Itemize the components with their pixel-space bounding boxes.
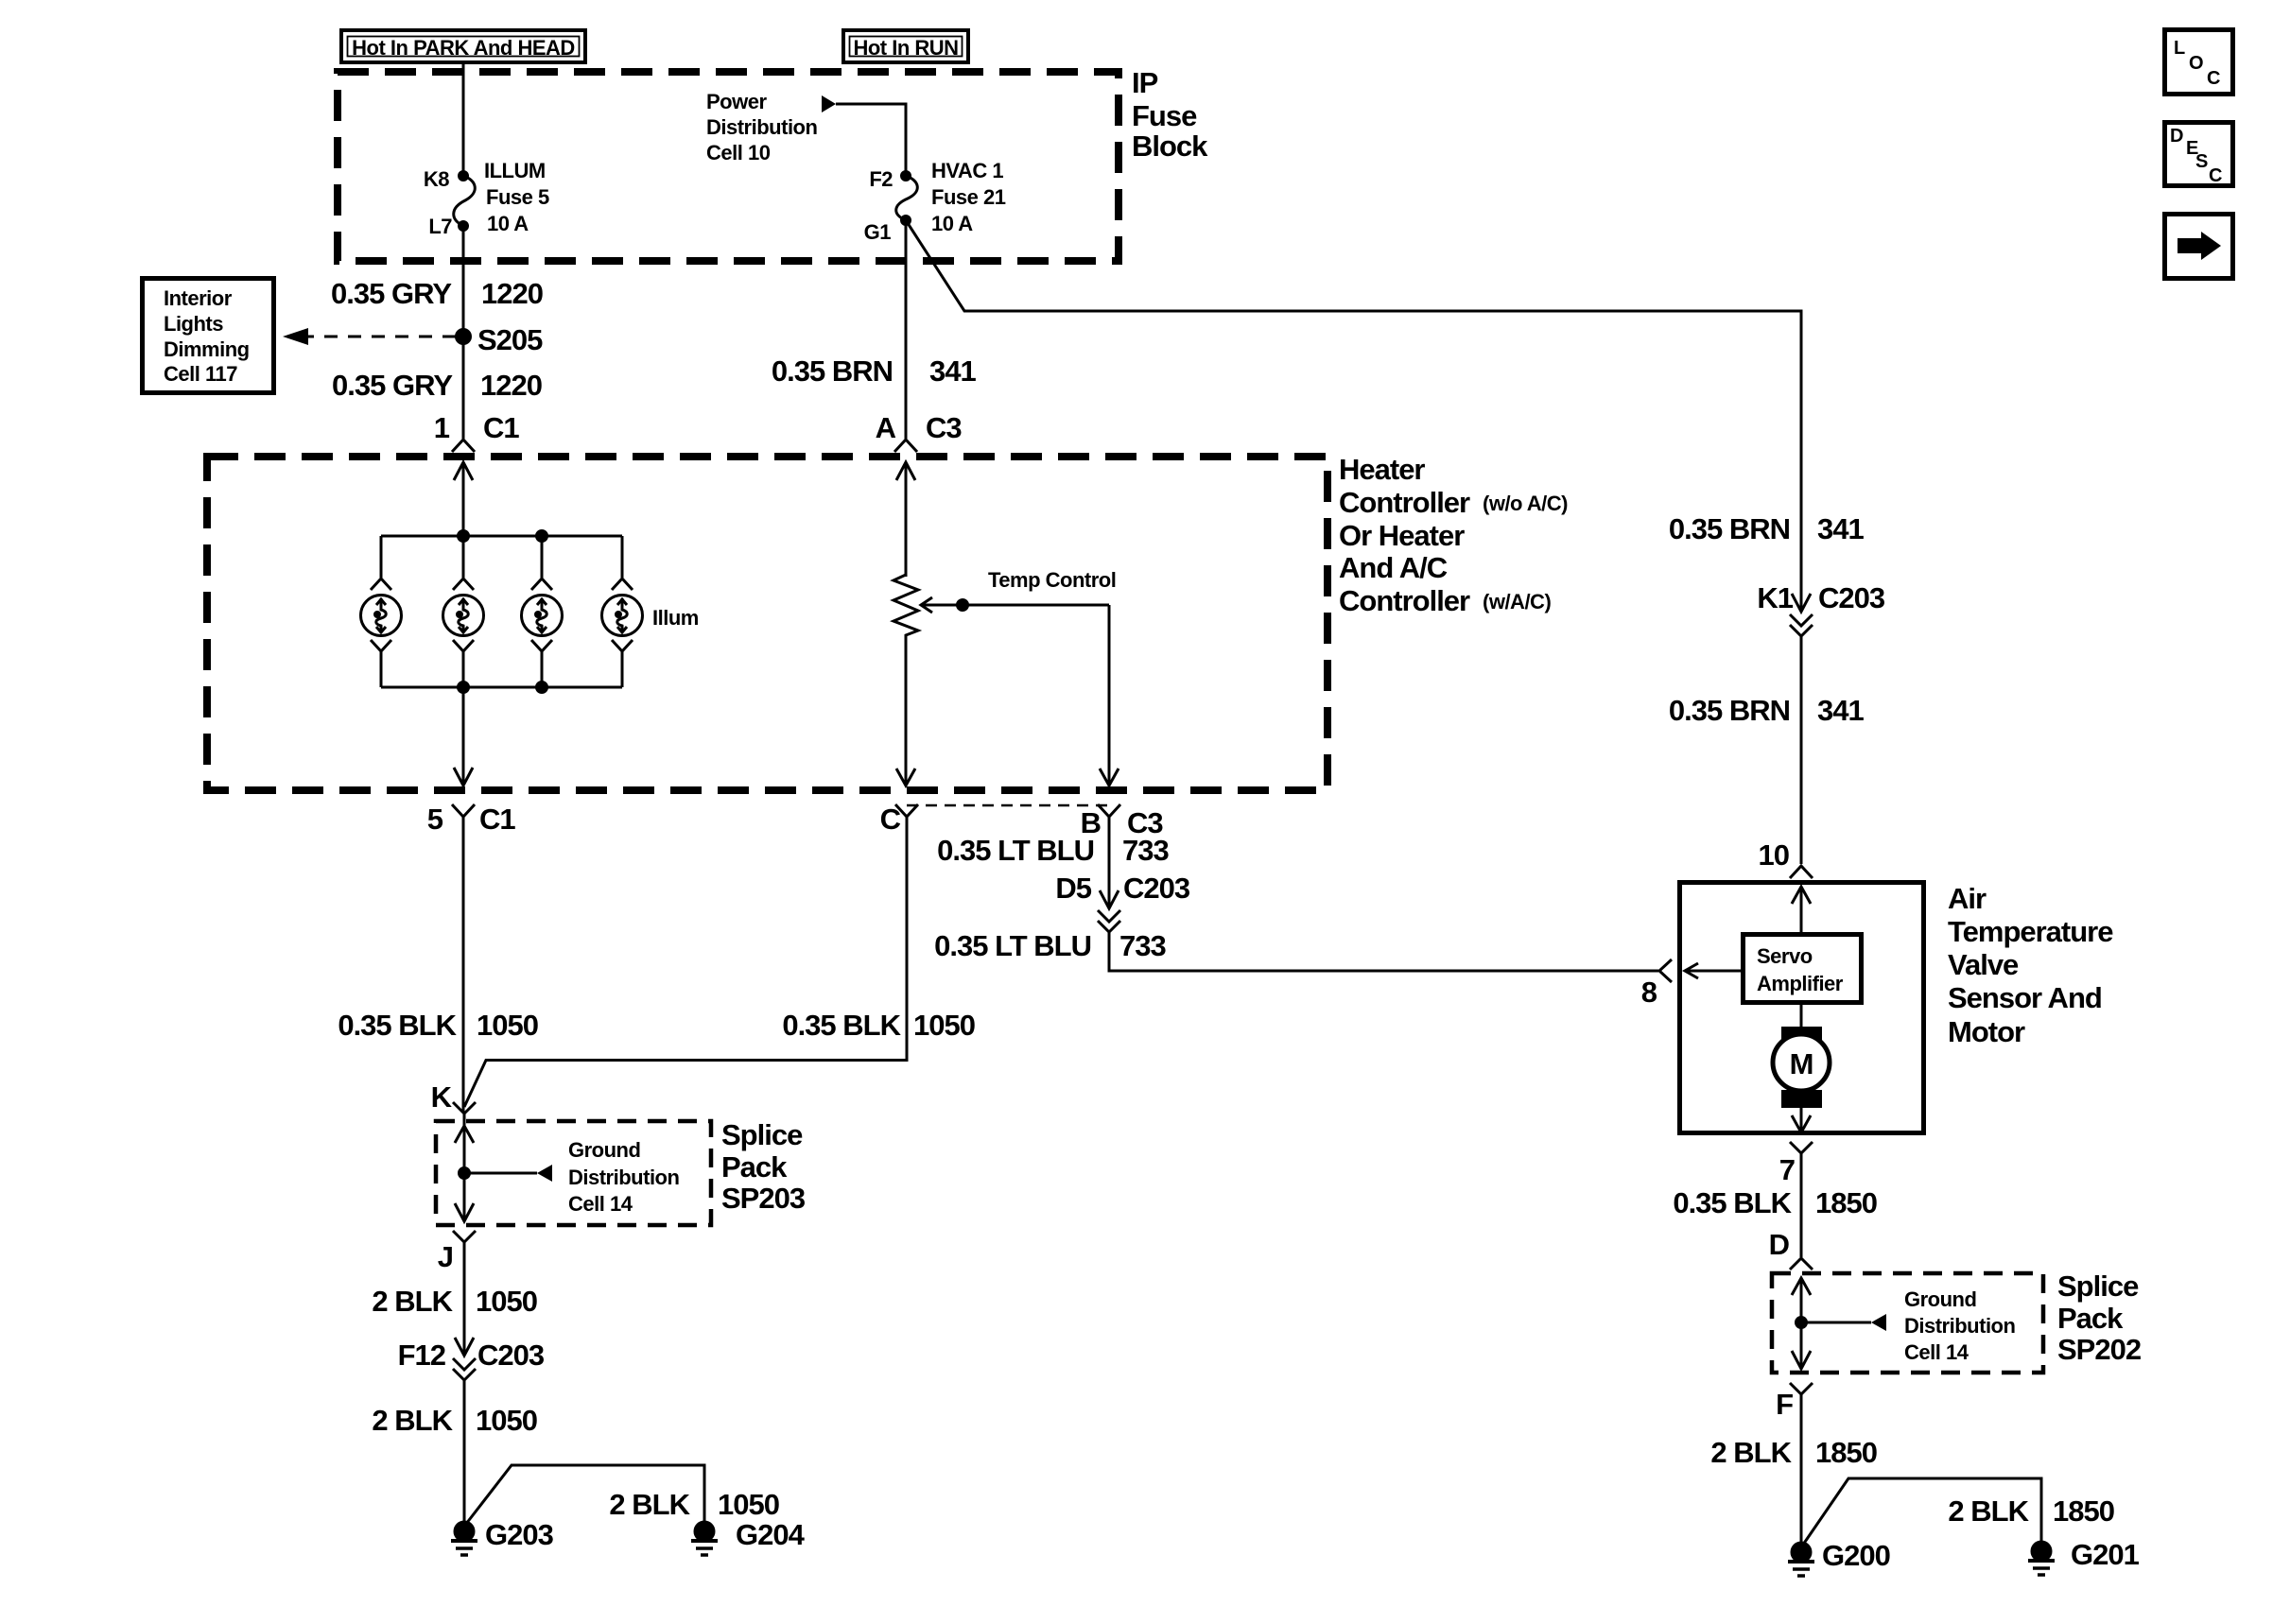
svg-text:Lights: Lights xyxy=(164,312,223,336)
fuse HVAC 1 value labels xyxy=(931,159,1006,235)
connector chevron J xyxy=(453,1231,476,1242)
svg-text:Splice: Splice xyxy=(721,1118,803,1151)
wire 2 BLK 1050 branch to ground G204 xyxy=(466,1465,704,1524)
svg-text:733: 733 xyxy=(1122,834,1169,867)
svg-text:0.35 LT BLU: 0.35 LT BLU xyxy=(934,929,1091,962)
svg-text:Pack: Pack xyxy=(721,1150,788,1183)
svg-text:Servo: Servo xyxy=(1757,944,1813,968)
svg-text:Sensor And: Sensor And xyxy=(1948,981,2102,1014)
legend box LOC xyxy=(2165,30,2233,95)
wire BRN 341 from fuse to connector C3 xyxy=(905,220,908,439)
wire LT BLU 733 from pin B to connector C203 xyxy=(1100,817,1119,908)
svg-text:Cell 14: Cell 14 xyxy=(1904,1340,1969,1364)
svg-text:Fuse 21: Fuse 21 xyxy=(931,185,1006,209)
connector chevron 1 C1 xyxy=(452,440,475,452)
wire label 0.35 LT BLU 733 upper xyxy=(937,834,1169,867)
pin D5 C203 labels xyxy=(1055,872,1190,905)
connector C3 thin dashed edge between C and B xyxy=(907,804,1109,807)
splice SP203 internal arrows xyxy=(455,1126,552,1221)
lamp bus bottom xyxy=(381,686,622,689)
svg-text:G200: G200 xyxy=(1822,1539,1890,1572)
svg-text:2 BLK: 2 BLK xyxy=(372,1285,453,1318)
wire label 0.35 BRN 341 right upper xyxy=(1669,512,1865,545)
connector chevron K xyxy=(453,1102,476,1114)
svg-text:M: M xyxy=(1790,1047,1813,1080)
svg-text:SP202: SP202 xyxy=(2057,1333,2141,1366)
inline connector F12 C203 double chevron xyxy=(453,1358,476,1380)
svg-text:J: J xyxy=(438,1240,453,1273)
Splice Pack SP203 label xyxy=(721,1118,806,1215)
svg-text:C1: C1 xyxy=(479,803,515,836)
svg-text:F2: F2 xyxy=(869,167,893,191)
svg-text:1050: 1050 xyxy=(476,1404,537,1437)
junction dot xyxy=(459,531,469,542)
ground G203 xyxy=(451,1522,477,1555)
svg-text:Splice: Splice xyxy=(2057,1270,2139,1303)
svg-text:733: 733 xyxy=(1119,929,1166,962)
svg-text:Interior: Interior xyxy=(164,286,233,310)
wire from servo amplifier to motor xyxy=(1800,1005,1803,1030)
svg-text:C1: C1 xyxy=(483,411,519,444)
pin A C3 labels xyxy=(876,411,963,444)
connector chevron pin 7 xyxy=(1790,1142,1813,1153)
svg-text:10: 10 xyxy=(1759,838,1789,872)
wire label 2 BLK 1050 branch xyxy=(609,1488,779,1521)
svg-text:1050: 1050 xyxy=(477,1009,538,1042)
fuse ILLUM value labels xyxy=(484,159,549,235)
heater controller name label xyxy=(1339,453,1568,617)
svg-text:Distribution: Distribution xyxy=(1904,1314,2015,1338)
legend box arrow xyxy=(2165,215,2233,279)
Power Distribution Cell 10 reference label xyxy=(706,90,817,164)
svg-text:D: D xyxy=(2170,126,2183,147)
pin F12 C203 labels xyxy=(398,1339,545,1372)
svg-text:IP: IP xyxy=(1132,66,1158,99)
svg-text:1220: 1220 xyxy=(480,369,542,402)
pin B C3 labels xyxy=(1081,806,1164,839)
svg-text:And A/C: And A/C xyxy=(1339,551,1448,584)
svg-text:10 A: 10 A xyxy=(931,212,973,235)
Interior Lights Dimming Cell 117 reference box xyxy=(143,279,274,393)
motor M xyxy=(1773,1027,1830,1108)
svg-text:C: C xyxy=(2207,68,2220,89)
wire label 0.35 GRY 1220 lower xyxy=(332,369,542,402)
IP fuse block label xyxy=(1132,66,1208,163)
connector chevron pin 10 xyxy=(1790,866,1813,878)
svg-text:Air: Air xyxy=(1948,882,1987,915)
pin 5 C1 labels xyxy=(427,803,516,836)
svg-text:Amplifier: Amplifier xyxy=(1757,972,1844,995)
svg-text:K8: K8 xyxy=(424,167,449,191)
svg-text:0.35 BLK: 0.35 BLK xyxy=(1673,1186,1792,1219)
svg-text:Controller: Controller xyxy=(1339,486,1470,519)
power source label box Hot In RUN xyxy=(843,30,968,62)
svg-text:SP203: SP203 xyxy=(721,1182,806,1215)
svg-text:Motor: Motor xyxy=(1948,1015,2025,1048)
svg-text:C: C xyxy=(2209,165,2222,186)
svg-text:C203: C203 xyxy=(477,1339,545,1372)
inline connector D5 C203 double chevron xyxy=(1098,910,1120,932)
junction dot xyxy=(459,682,469,693)
lamp bus top xyxy=(381,535,622,538)
svg-text:1850: 1850 xyxy=(2053,1494,2114,1528)
svg-text:Or Heater: Or Heater xyxy=(1339,519,1465,552)
svg-text:Block: Block xyxy=(1132,130,1208,163)
Ground Distribution Cell 14 label SP203 xyxy=(568,1138,679,1216)
svg-text:D: D xyxy=(1769,1228,1790,1261)
wire from potentiometer to pin C with exit arrow xyxy=(896,637,915,786)
wire BLK 1050 from pin 5 down to splice pack xyxy=(462,817,465,1113)
splice pack SP203 dashed box xyxy=(436,1121,711,1225)
svg-text:C: C xyxy=(880,803,901,836)
arrowhead from Power Distribution feed xyxy=(822,95,836,112)
arrowhead to Interior Lights Dimming xyxy=(283,328,308,345)
wire arrow into box at pin 10 xyxy=(1792,887,1811,932)
lamp branch 3 xyxy=(522,536,563,687)
svg-text:L: L xyxy=(2174,38,2185,59)
wire from connector C203 to air temperature valve pin 8 xyxy=(1109,932,1658,971)
connector chevron pin 8 xyxy=(1659,959,1672,982)
wire from lamps to pin 5 with exit arrow xyxy=(454,687,473,786)
wire 2 BLK 1050 from J to connector C203 xyxy=(455,1242,474,1356)
wire 0.35 BLK 1850 from pin 7 to splice pack xyxy=(1800,1153,1803,1257)
svg-text:0.35 GRY: 0.35 GRY xyxy=(332,369,453,402)
svg-text:1220: 1220 xyxy=(481,277,543,310)
svg-text:A: A xyxy=(876,411,896,444)
wire label 0.35 BLK 1050 middle xyxy=(782,1009,975,1042)
wire 2 BLK 1850 from F to ground G200 xyxy=(1800,1394,1803,1544)
svg-text:Hot In RUN: Hot In RUN xyxy=(853,36,958,60)
svg-text:Temp Control: Temp Control xyxy=(988,568,1116,592)
connector chevron pin B C3 xyxy=(1098,804,1120,817)
svg-text:1050: 1050 xyxy=(913,1009,975,1042)
wire 0.35 BRN 341 from C203 to air temperature valve xyxy=(1800,636,1803,864)
svg-text:O: O xyxy=(2189,53,2203,74)
svg-text:S: S xyxy=(2195,151,2208,172)
svg-text:Heater: Heater xyxy=(1339,453,1425,486)
svg-text:5: 5 xyxy=(427,803,443,836)
svg-text:S205: S205 xyxy=(477,323,543,356)
wire label 0.35 BRN 341 right lower xyxy=(1669,694,1865,727)
ground G204 xyxy=(691,1522,718,1555)
Ground Distribution Cell 14 label SP202 xyxy=(1904,1287,2015,1364)
svg-text:C203: C203 xyxy=(1123,872,1190,905)
wire label 2 BLK 1850 left xyxy=(1710,1436,1877,1469)
wire from Power Distribution to fuse HVAC 1 xyxy=(836,104,906,176)
svg-text:Dimming: Dimming xyxy=(164,337,250,361)
splice pack SP202 dashed box xyxy=(1772,1273,2043,1373)
pin 1 C1 labels xyxy=(434,411,520,444)
svg-text:G204: G204 xyxy=(736,1518,806,1551)
air temperature valve name label xyxy=(1948,882,2113,1048)
wire from Hot In PARK And HEAD to fuse ILLUM xyxy=(462,62,465,176)
wire arrow into heater controller at pin A xyxy=(896,462,915,577)
wire label 0.35 BLK 1050 left xyxy=(338,1009,538,1042)
connector chevron pin 5 C1 xyxy=(452,804,475,817)
svg-text:K: K xyxy=(431,1080,453,1114)
svg-text:C203: C203 xyxy=(1818,581,1885,614)
svg-text:341: 341 xyxy=(929,354,976,388)
svg-text:Hot In PARK And HEAD: Hot In PARK And HEAD xyxy=(352,36,575,60)
svg-text:Controller: Controller xyxy=(1339,584,1470,617)
connector chevron A C3 xyxy=(894,440,917,452)
wire label 2 BLK 1050 lower xyxy=(372,1404,537,1437)
wire arrow into heater controller at pin 1 xyxy=(454,462,473,536)
svg-text:8: 8 xyxy=(1641,976,1657,1009)
wire label 2 BLK 1850 branch xyxy=(1948,1494,2114,1528)
svg-text:HVAC 1: HVAC 1 xyxy=(931,159,1003,182)
svg-text:0.35 BLK: 0.35 BLK xyxy=(338,1009,457,1042)
svg-text:0.35 BLK: 0.35 BLK xyxy=(782,1009,901,1042)
arrow from servo amplifier to pin 8 xyxy=(1685,963,1741,978)
svg-text:F: F xyxy=(1776,1388,1793,1421)
connector chevron F xyxy=(1790,1383,1813,1394)
junction dot xyxy=(537,531,547,542)
junction dot xyxy=(537,682,547,693)
svg-text:ILLUM: ILLUM xyxy=(484,159,546,182)
wire 2 BLK 1850 branch to ground G201 xyxy=(1803,1478,2041,1545)
svg-text:1850: 1850 xyxy=(1815,1186,1877,1219)
potentiometer wiper arrow xyxy=(921,597,1119,786)
svg-text:G1: G1 xyxy=(864,220,892,244)
svg-text:0.35 BRN: 0.35 BRN xyxy=(1669,512,1790,545)
svg-text:0.35 LT BLU: 0.35 LT BLU xyxy=(937,834,1094,867)
svg-text:Cell 14: Cell 14 xyxy=(568,1192,633,1216)
legend box DESC xyxy=(2165,123,2233,187)
wire label 2 BLK 1050 upper xyxy=(372,1285,537,1318)
svg-text:Cell 117: Cell 117 xyxy=(164,362,237,386)
svg-text:(w/A/C): (w/A/C) xyxy=(1483,590,1551,613)
lamp branch 2 xyxy=(443,536,484,687)
svg-text:Distribution: Distribution xyxy=(568,1166,679,1189)
svg-text:Illum: Illum xyxy=(652,606,699,630)
svg-text:2 BLK: 2 BLK xyxy=(372,1404,453,1437)
servo amplifier box xyxy=(1744,935,1862,1003)
svg-text:C3: C3 xyxy=(926,411,962,444)
svg-text:2 BLK: 2 BLK xyxy=(1710,1436,1792,1469)
lamp branch 4 Illum xyxy=(602,536,643,687)
pin K1 C203 labels xyxy=(1757,581,1885,614)
connector chevron pin C xyxy=(895,804,918,817)
wire label 0.35 GRY 1220 upper xyxy=(331,277,543,310)
svg-text:L7: L7 xyxy=(428,215,452,238)
svg-text:7: 7 xyxy=(1779,1153,1795,1186)
potentiometer Temp Control xyxy=(894,575,918,637)
svg-text:Pack: Pack xyxy=(2057,1302,2124,1335)
svg-text:0.35 GRY: 0.35 GRY xyxy=(331,277,452,310)
wire label 0.35 LT BLU 733 lower xyxy=(934,929,1166,962)
svg-text:Fuse: Fuse xyxy=(1132,99,1197,132)
diagonal wire from fuse G1 to right riser xyxy=(906,220,1801,610)
svg-text:Ground: Ground xyxy=(568,1138,640,1162)
connector chevron D xyxy=(1790,1258,1813,1270)
fuse ILLUM Fuse 5 10 A (K8-L7) xyxy=(454,172,476,231)
svg-text:1050: 1050 xyxy=(718,1488,779,1521)
dashed wire to Interior Lights Dimming xyxy=(308,336,456,338)
wire GRY 1220 from fuse to connector C1 xyxy=(462,226,465,439)
svg-text:G203: G203 xyxy=(485,1518,554,1551)
svg-text:F12: F12 xyxy=(398,1339,445,1372)
svg-text:Ground: Ground xyxy=(1904,1287,1976,1311)
svg-text:D5: D5 xyxy=(1055,872,1091,905)
svg-text:341: 341 xyxy=(1817,694,1864,727)
wire from motor to pin 7 with exit arrow xyxy=(1792,1108,1811,1132)
svg-text:Temperature: Temperature xyxy=(1948,915,2113,948)
air temperature valve sensor and motor box xyxy=(1680,883,1924,1133)
svg-text:1850: 1850 xyxy=(1815,1436,1877,1469)
servo amplifier label xyxy=(1757,944,1844,995)
wire BLK 1050 from pin C down and over to splice pack xyxy=(464,817,907,1107)
ground G200 xyxy=(1788,1543,1814,1576)
svg-text:1: 1 xyxy=(434,411,450,444)
IP fuse block dashed box xyxy=(338,72,1119,261)
svg-text:341: 341 xyxy=(1817,512,1864,545)
fuse HVAC 1 Fuse 21 10 A (F2-G1) xyxy=(896,172,918,225)
svg-text:0.35 BRN: 0.35 BRN xyxy=(1669,694,1790,727)
wire 2 BLK 1050 to ground G203 xyxy=(463,1380,466,1524)
splice SP202 internal arrows xyxy=(1792,1278,1886,1369)
svg-text:Distribution: Distribution xyxy=(706,115,817,139)
splice S205 xyxy=(457,330,471,344)
svg-text:K1: K1 xyxy=(1757,581,1793,614)
svg-text:Power: Power xyxy=(706,90,767,113)
wire label 0.35 BLK 1850 xyxy=(1673,1186,1877,1219)
power source label box Hot In PARK And HEAD xyxy=(341,30,585,62)
inline connector K1 C203 arrow and double chevron xyxy=(1790,594,1813,636)
lamp branch 1 xyxy=(361,536,402,687)
svg-text:1050: 1050 xyxy=(476,1285,537,1318)
svg-text:Cell 10: Cell 10 xyxy=(706,141,771,164)
svg-text:(w/o A/C): (w/o A/C) xyxy=(1483,492,1568,515)
wire label 0.35 BRN 341 xyxy=(772,354,977,388)
Splice Pack SP202 label xyxy=(2057,1270,2141,1366)
svg-text:2 BLK: 2 BLK xyxy=(1948,1494,2029,1528)
heater controller dashed box xyxy=(207,457,1327,790)
ground G201 xyxy=(2028,1542,2055,1575)
svg-text:10 A: 10 A xyxy=(487,212,529,235)
svg-text:G201: G201 xyxy=(2071,1538,2140,1571)
svg-text:2 BLK: 2 BLK xyxy=(609,1488,690,1521)
svg-text:0.35 BRN: 0.35 BRN xyxy=(772,354,893,388)
svg-text:Fuse 5: Fuse 5 xyxy=(486,185,549,209)
svg-text:Valve: Valve xyxy=(1948,948,2019,981)
